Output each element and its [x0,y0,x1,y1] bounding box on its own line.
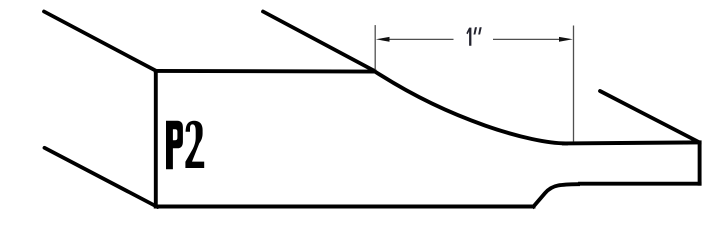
dimension extension line right [573,26,575,142]
dimension line left segment [388,38,454,40]
arrowhead left [376,37,390,42]
dimension text: double prime [474,27,482,34]
break line right [600,91,700,142]
break line top-left [44,12,157,72]
left vertical edge [154,71,158,207]
bottom edge [156,205,534,209]
right end vertical [698,142,702,183]
profile outline: left vertical, top edge, bottom edge [156,71,700,207]
top edge [156,69,375,74]
break line top-middle [263,12,375,71]
dimension text: digit 1 [466,28,471,46]
dimension extension line left [374,25,376,69]
break line bottom-left [45,148,158,207]
dimension line right segment [493,38,562,40]
ogee curve [375,71,567,143]
label P2: letter P [166,121,183,169]
tongue bottom edge [580,182,700,186]
label P2: digit 2 [185,121,204,168]
tongue top edge [564,142,700,143]
arrowhead right [559,37,573,42]
bottom step curve [534,184,579,206]
